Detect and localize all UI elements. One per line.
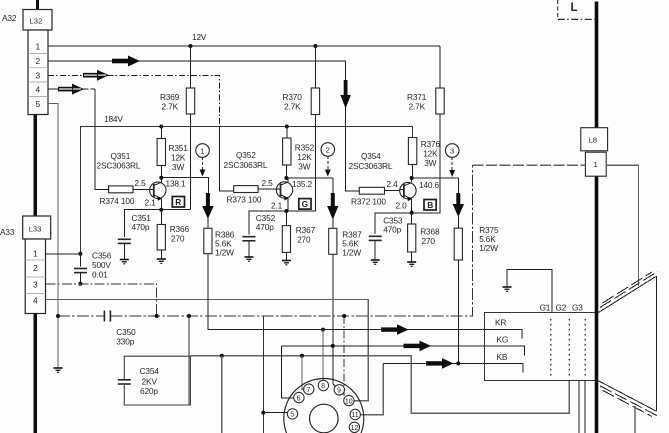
junction C356 top (78, 252, 82, 256)
arrow pin3 (83, 70, 109, 81)
B module gray box (472, 165, 638, 286)
grid G3 dotted electrode (584, 319, 586, 376)
socket pin 10 (344, 395, 354, 405)
junction rail/R351 (159, 125, 163, 129)
socket pin 9 (334, 385, 344, 395)
svg-text:R367: R367 (296, 225, 316, 235)
socket outer circle (284, 379, 364, 433)
wire emitter branch (249, 211, 287, 235)
capacitor C351 (118, 213, 151, 259)
junction y316 / pin10 wire (342, 314, 346, 318)
svg-text:9: 9 (337, 388, 341, 395)
CRT neck box (485, 313, 597, 381)
wire A33 bottom stub (34, 314, 37, 433)
svg-text:5: 5 (36, 99, 41, 109)
svg-text:KB: KB (497, 352, 508, 362)
transistor Q352 (224, 150, 293, 211)
junction G2 line branch to bottom (220, 354, 224, 358)
wire KR to socket pin8 (322, 330, 324, 381)
svg-text:470p: 470p (383, 225, 401, 235)
svg-text:R371: R371 (407, 92, 427, 102)
circled 2 output marker (321, 143, 335, 177)
junction emitter node 2 (284, 209, 288, 213)
svg-text:12: 12 (351, 425, 359, 432)
wire video line y316 (58, 165, 472, 316)
arrow pin2 (112, 56, 140, 67)
svg-text:470p: 470p (132, 222, 150, 232)
ground C353 (371, 260, 380, 264)
resistor R373 (227, 186, 277, 205)
wire C354 module right edge (188, 316, 190, 405)
boxed R marker (172, 197, 184, 208)
resistor R374 (100, 186, 150, 206)
junction C356 bottom (78, 282, 82, 286)
svg-text:500V: 500V (92, 260, 111, 270)
resistor R351 (157, 127, 188, 178)
junction rail/R352 (285, 125, 289, 129)
svg-text:1: 1 (33, 249, 38, 259)
transistor Q351 (97, 151, 167, 210)
svg-text:140.6: 140.6 (419, 180, 440, 190)
svg-text:5: 5 (290, 412, 294, 419)
svg-text:2.7K: 2.7K (284, 102, 301, 112)
wire collector to output drop (412, 178, 459, 193)
wire pin2 to stage B base (48, 61, 359, 191)
svg-text:1: 1 (36, 42, 41, 52)
wire pin4 to stage R base (48, 88, 95, 90)
wire down to socket pin7 (302, 356, 304, 389)
socket pin 8 (318, 380, 328, 390)
resistor R386 (204, 217, 235, 258)
wire emitter branch (124, 210, 190, 237)
wire G3 leads below box (579, 380, 585, 433)
wire pin1 12V rail (48, 45, 440, 47)
wire 184V rail (81, 127, 413, 254)
connector A32 plug box L32 (23, 10, 52, 31)
svg-text:Q351: Q351 (111, 151, 131, 161)
boxed B marker (424, 200, 436, 211)
arrow output R (thick down) (202, 193, 213, 219)
svg-text:0.01: 0.01 (92, 270, 108, 280)
svg-text:11: 11 (351, 412, 358, 419)
svg-text:2SC3063RL: 2SC3063RL (224, 160, 268, 170)
svg-text:6: 6 (297, 395, 301, 402)
svg-text:Q352: Q352 (236, 150, 256, 160)
wire G2 net (gray) from C354 to CRT (190, 356, 569, 413)
svg-text:12K: 12K (171, 153, 186, 163)
connector L8 box (581, 128, 608, 151)
socket pin 5 (287, 409, 297, 419)
junction emitter node 1 (159, 208, 163, 212)
svg-text:2.1: 2.1 (145, 198, 157, 208)
capacitor C352 (242, 213, 275, 257)
wire KG line (281, 346, 524, 356)
svg-text:R352: R352 (295, 143, 315, 153)
connector pin 1 box (585, 152, 606, 176)
svg-text:1: 1 (200, 147, 204, 156)
svg-text:R373 100: R373 100 (227, 195, 262, 205)
svg-text:2.7K: 2.7K (409, 102, 426, 112)
wire branch down from G2 line (221, 356, 223, 433)
svg-text:KR: KR (495, 318, 506, 328)
socket pin 6 (294, 392, 304, 402)
wire KB to socket pin11 (361, 363, 384, 414)
svg-text:12K: 12K (297, 152, 312, 162)
svg-text:L: L (571, 2, 578, 14)
svg-text:R374 100: R374 100 (100, 196, 135, 206)
svg-text:2.5: 2.5 (262, 178, 274, 188)
svg-text:270: 270 (422, 236, 436, 246)
svg-text:2SC3063RL: 2SC3063RL (349, 161, 393, 171)
anode plug box L (top right) (558, 0, 596, 19)
transistor Q354 (349, 151, 417, 213)
boxed G marker (299, 199, 311, 210)
arrow on B feed vertical (340, 80, 351, 109)
svg-text:138.1: 138.1 (166, 179, 187, 189)
svg-text:G3: G3 (572, 303, 583, 313)
svg-text:A32: A32 (2, 13, 17, 23)
resistor R368 (408, 213, 440, 262)
svg-text:A33: A33 (0, 227, 15, 237)
wire A33 pin3 (dash-dot) (46, 284, 157, 316)
svg-text:2: 2 (33, 263, 38, 273)
svg-text:620p: 620p (140, 386, 158, 396)
wire collector to output drop (161, 178, 208, 193)
svg-text:2: 2 (36, 56, 41, 66)
svg-text:2.5: 2.5 (135, 178, 147, 188)
svg-text:Q354: Q354 (361, 151, 381, 161)
arrow KG (404, 341, 432, 352)
wire KR line (208, 254, 522, 339)
svg-text:2.7K: 2.7K (162, 102, 179, 112)
svg-text:C354: C354 (140, 366, 160, 376)
CRT funnel top edge (599, 276, 657, 312)
svg-text:135.2: 135.2 (292, 179, 313, 189)
svg-text:R376: R376 (421, 139, 441, 149)
connector A33 body (25, 239, 45, 314)
junction KG / R387 (331, 344, 335, 348)
ground G1 (503, 287, 512, 291)
svg-text:3W: 3W (172, 162, 184, 172)
arrow KB (426, 358, 454, 369)
svg-text:3W: 3W (298, 162, 310, 172)
svg-text:1: 1 (594, 160, 598, 169)
wire video to pin 5 (261, 316, 287, 433)
arrow KR (381, 324, 409, 335)
svg-text:270: 270 (297, 235, 311, 245)
junction collector node 1 (159, 176, 163, 180)
resistor R375 (454, 215, 499, 363)
wire pin5 ground drop (48, 104, 58, 369)
resistor R376 (408, 138, 440, 179)
connector A32 body (28, 30, 48, 115)
socket pin 12 (349, 422, 359, 432)
svg-text:1/2W: 1/2W (215, 248, 234, 258)
resistor R370 (283, 46, 320, 211)
junction collector node 2 (284, 176, 288, 180)
wire heater line to socket pin10 left (343, 316, 345, 401)
resistor R387 (329, 218, 362, 346)
junction collector node 3 (410, 176, 414, 180)
svg-text:3: 3 (33, 280, 38, 290)
svg-text:C350: C350 (116, 327, 136, 337)
junction KB / R375 (456, 361, 460, 365)
svg-text:G: G (302, 199, 309, 209)
svg-text:G2: G2 (556, 303, 567, 313)
svg-text:470p: 470p (256, 222, 274, 232)
svg-text:184V: 184V (104, 114, 123, 124)
wire collector to output drop (286, 178, 332, 193)
svg-text:270: 270 (171, 234, 185, 244)
resistor R367 (282, 211, 315, 260)
resistor R371 (407, 46, 444, 213)
svg-text:12K: 12K (423, 149, 438, 159)
svg-text:7: 7 (307, 387, 311, 394)
ground C352 (244, 257, 253, 261)
socket pin 7 (304, 384, 314, 394)
grid G1 dotted electrode (550, 319, 552, 376)
grid G2 dotted electrode (568, 319, 570, 376)
svg-text:2SC3063RL: 2SC3063RL (97, 161, 141, 171)
resistor R372 (351, 187, 400, 206)
capacitor C356 (74, 251, 112, 284)
junction A33 pin3 / y316 (155, 314, 159, 318)
wire emitter branch (375, 213, 412, 234)
CRT funnel top dashed doubles (600, 271, 658, 307)
CRT funnel screen edge (655, 276, 657, 411)
ground R366 (157, 259, 166, 263)
svg-text:1/2W: 1/2W (342, 248, 361, 258)
CRT faceplate thick line (595, 2, 599, 128)
CRT funnel bottom edge (599, 381, 657, 411)
svg-text:L8: L8 (589, 136, 597, 145)
junction emitter node 3 (410, 211, 414, 215)
svg-text:L33: L33 (29, 225, 42, 234)
svg-text:2.1: 2.1 (271, 201, 283, 211)
svg-text:R369: R369 (160, 92, 180, 102)
socket pin 11 (350, 409, 360, 419)
wire yoke stub bottom (634, 406, 636, 433)
svg-text:R351: R351 (169, 143, 189, 153)
svg-text:G1: G1 (540, 303, 551, 313)
wire A33 pin1 184V (46, 253, 81, 255)
svg-text:12V: 12V (192, 32, 207, 42)
wire pin3 to stage G base (dash-dot) (48, 75, 219, 126)
junction KR / socket pin8 (321, 328, 325, 332)
svg-text:4: 4 (33, 296, 38, 306)
svg-text:R368: R368 (420, 227, 440, 237)
junction G2 line / heater pin7 (300, 354, 304, 358)
capacitor C353 (369, 216, 403, 260)
wire G1 to ground (507, 270, 552, 313)
svg-text:3: 3 (450, 147, 454, 156)
circled 3 output marker (445, 144, 459, 177)
svg-text:8: 8 (321, 383, 325, 390)
svg-text:3W: 3W (424, 158, 436, 168)
wire A33 pin4 (gray) to socket pin10 (46, 300, 369, 401)
connector A32 top stub (36, 0, 39, 10)
junction pin5 line / y316 (56, 314, 60, 318)
svg-text:R370: R370 (283, 92, 303, 102)
svg-text:R372 100: R372 100 (351, 197, 386, 207)
svg-text:3: 3 (36, 71, 41, 81)
arrow pin4 (58, 84, 84, 95)
svg-text:10: 10 (345, 398, 353, 405)
svg-text:330p: 330p (116, 337, 134, 347)
wire KB line (383, 363, 523, 372)
wire KG drop to socket pin6 (281, 346, 293, 398)
svg-text:L32: L32 (30, 17, 43, 26)
capacitor C350 (series) (104, 311, 136, 347)
svg-text:2.0: 2.0 (396, 201, 408, 211)
circled 1 output marker (196, 144, 210, 177)
arrow output B (thick down) (453, 193, 464, 217)
ground R367 (282, 261, 291, 265)
svg-text:R366: R366 (170, 224, 190, 234)
ground pin5 (54, 368, 63, 372)
svg-text:1/2W: 1/2W (479, 243, 498, 253)
arrow output G (thick down) (327, 193, 338, 220)
ground R368 (407, 262, 416, 266)
wire R387 node to socket pin9 (333, 346, 336, 387)
svg-text:2: 2 (326, 146, 330, 155)
resistor R369 (160, 46, 195, 210)
svg-text:B: B (427, 200, 433, 210)
svg-text:2.4: 2.4 (387, 179, 399, 189)
capacitor C354 module box (118, 356, 191, 405)
connector A33 plug box L33 (23, 216, 51, 239)
svg-text:KG: KG (497, 335, 509, 345)
junction 12V/R370 (313, 44, 317, 48)
socket key circle (310, 404, 339, 433)
CRT funnel bottom dashed doubles (600, 386, 658, 417)
junction C354 module / y316 (187, 314, 191, 318)
svg-text:R: R (175, 197, 181, 207)
svg-text:4: 4 (36, 85, 41, 95)
wire A32 between connectors (34, 115, 37, 217)
junction 12V/R369 (189, 44, 193, 48)
ground C351 (120, 260, 129, 264)
resistor R366 (157, 210, 189, 259)
svg-text:C356: C356 (92, 251, 112, 261)
resistor R352 (283, 127, 315, 179)
